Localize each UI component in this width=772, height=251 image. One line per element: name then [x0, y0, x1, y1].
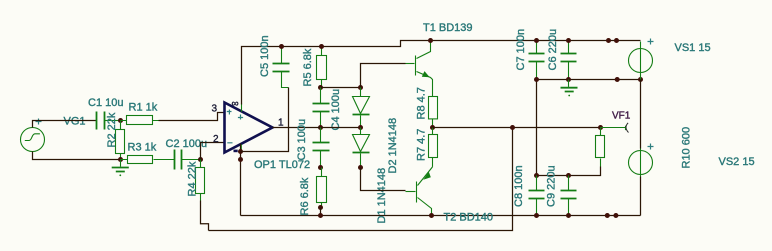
- resistor R2: [116, 121, 125, 160]
- wire VG1 top to C1: [33, 121, 97, 128]
- svg-text:C6 220u: C6 220u: [547, 29, 559, 71]
- node rail joint d: [613, 213, 618, 218]
- svg-text:R2 22k: R2 22k: [106, 112, 118, 147]
- node feedback tap: [510, 125, 515, 130]
- node C7 bot: [534, 77, 539, 82]
- node gnd-left: [118, 157, 123, 162]
- node rail joint a: [606, 38, 611, 43]
- wire C5 to pin4 node: [241, 88, 289, 152]
- node diode bot: [358, 165, 363, 170]
- capacitor C5: [273, 47, 290, 88]
- svg-text:C7 100n: C7 100n: [515, 29, 527, 71]
- node pin2: [198, 157, 203, 162]
- node bias top: [318, 85, 323, 90]
- node C8 top: [534, 173, 539, 178]
- transistor T2: [406, 167, 433, 216]
- diode D1: [353, 88, 370, 128]
- svg-text:R6 6.8k: R6 6.8k: [299, 177, 311, 215]
- diode D2: [353, 128, 370, 168]
- ground right: [561, 80, 578, 97]
- svg-text:C4 100u: C4 100u: [330, 89, 342, 131]
- resistor R4: [196, 160, 205, 201]
- wire op-amp output: [273, 127, 361, 129]
- capacitor C7: [529, 41, 545, 80]
- svg-text:C1 10u: C1 10u: [88, 97, 123, 109]
- node C6 bot: [566, 77, 571, 82]
- capacitor C3: [313, 128, 330, 168]
- wire R6 to rail: [320, 208, 322, 216]
- wire ground column: [536, 80, 538, 176]
- node C6 top: [566, 38, 571, 43]
- wire feedback rail: [209, 128, 513, 231]
- node T2 collector: [429, 213, 434, 218]
- voltage pin VF1: [601, 123, 629, 133]
- svg-text:3: 3: [212, 104, 218, 115]
- capacitor C4: [313, 88, 330, 128]
- resistor R6: [317, 168, 327, 208]
- node R6 bot a: [318, 205, 323, 210]
- svg-text:R3 1k: R3 1k: [128, 142, 157, 154]
- node C8 bot: [534, 213, 539, 218]
- svg-text:R1 1k: R1 1k: [129, 102, 158, 114]
- ground left: [112, 160, 129, 177]
- source VS1: [629, 39, 654, 80]
- svg-text:∞: ∞: [232, 99, 239, 110]
- resistor R5: [317, 47, 327, 88]
- svg-text:T1 BD139: T1 BD139: [423, 22, 473, 34]
- svg-text:2: 2: [213, 134, 219, 145]
- capacitor C9: [561, 176, 577, 216]
- node C7 top: [534, 38, 539, 43]
- node C9 bot: [566, 213, 571, 218]
- node in1: [118, 118, 123, 123]
- wire R1 to op-amp pin3: [159, 113, 225, 121]
- wire pin4 down: [240, 144, 242, 216]
- wire to op-amp pin2: [201, 143, 225, 160]
- wire VG1 bottom rail: [33, 152, 121, 160]
- wire vminus rail: [241, 215, 641, 217]
- node T1 collector: [428, 38, 433, 43]
- svg-text:C5 100n: C5 100n: [259, 35, 271, 77]
- node diode top: [358, 85, 363, 90]
- svg-text:D1 1N4148: D1 1N4148: [376, 168, 388, 224]
- transistor T1: [406, 41, 433, 97]
- source VS2: [629, 144, 654, 177]
- svg-text:R10 600: R10 600: [681, 127, 693, 169]
- node C5 top: [279, 44, 284, 49]
- node mid left: [318, 125, 323, 130]
- wire pin8 supply: [242, 41, 641, 105]
- node C9 top: [566, 173, 571, 178]
- resistor R1: [121, 116, 159, 125]
- node vs mid: [638, 77, 643, 82]
- svg-text:C9 220u: C9 220u: [546, 165, 558, 207]
- resistor R7: [429, 128, 438, 167]
- svg-text:VF1: VF1: [612, 111, 631, 122]
- capacitor C2: [175, 150, 201, 170]
- svg-text:D2 1N4148: D2 1N4148: [387, 118, 399, 174]
- generator VG1: [21, 119, 45, 152]
- wire T1 base: [361, 64, 406, 88]
- node rail joint b: [614, 38, 619, 43]
- svg-text:C8 100n: C8 100n: [513, 165, 525, 207]
- wire R10 bottom: [537, 167, 601, 176]
- svg-text:R4 22k: R4 22k: [187, 161, 199, 196]
- node R5 top: [319, 44, 324, 49]
- wire supply column: [640, 80, 642, 149]
- node pin4 b: [238, 157, 243, 162]
- svg-text:R8 4.7: R8 4.7: [416, 87, 428, 119]
- resistor R10: [596, 128, 605, 167]
- wire VS2 bottom: [640, 177, 642, 216]
- capacitor C8: [529, 176, 545, 216]
- wire output row: [433, 127, 601, 129]
- node R6 bot b: [318, 213, 323, 218]
- node gnd joint: [615, 77, 620, 82]
- svg-text:R5 6.8k: R5 6.8k: [302, 48, 314, 86]
- wire ground rail: [537, 79, 641, 81]
- svg-text:VS2 15: VS2 15: [719, 156, 755, 168]
- node pin4 a: [238, 149, 243, 154]
- wire R4 to feedback rail: [201, 201, 209, 231]
- svg-text:T2 BD140: T2 BD140: [444, 212, 494, 224]
- resistor R3: [121, 156, 175, 164]
- node bias bot left: [318, 165, 323, 170]
- svg-text:VS1 15: VS1 15: [675, 42, 711, 54]
- resistor R8: [429, 97, 438, 128]
- node emitter mid: [430, 125, 435, 130]
- node output R10: [598, 125, 603, 130]
- svg-text:1: 1: [278, 118, 284, 129]
- wire bias top row: [321, 87, 361, 89]
- capacitor C6: [561, 41, 577, 80]
- svg-text:VG1: VG1: [64, 116, 86, 128]
- node rail joint c: [605, 213, 610, 218]
- node diode mid: [358, 125, 363, 130]
- svg-text:C3 100u: C3 100u: [296, 119, 308, 161]
- svg-text:R7 4.7: R7 4.7: [416, 129, 428, 161]
- op-amp OP1: [225, 103, 273, 153]
- capacitor C1: [97, 112, 121, 130]
- wire T2 base: [361, 168, 406, 191]
